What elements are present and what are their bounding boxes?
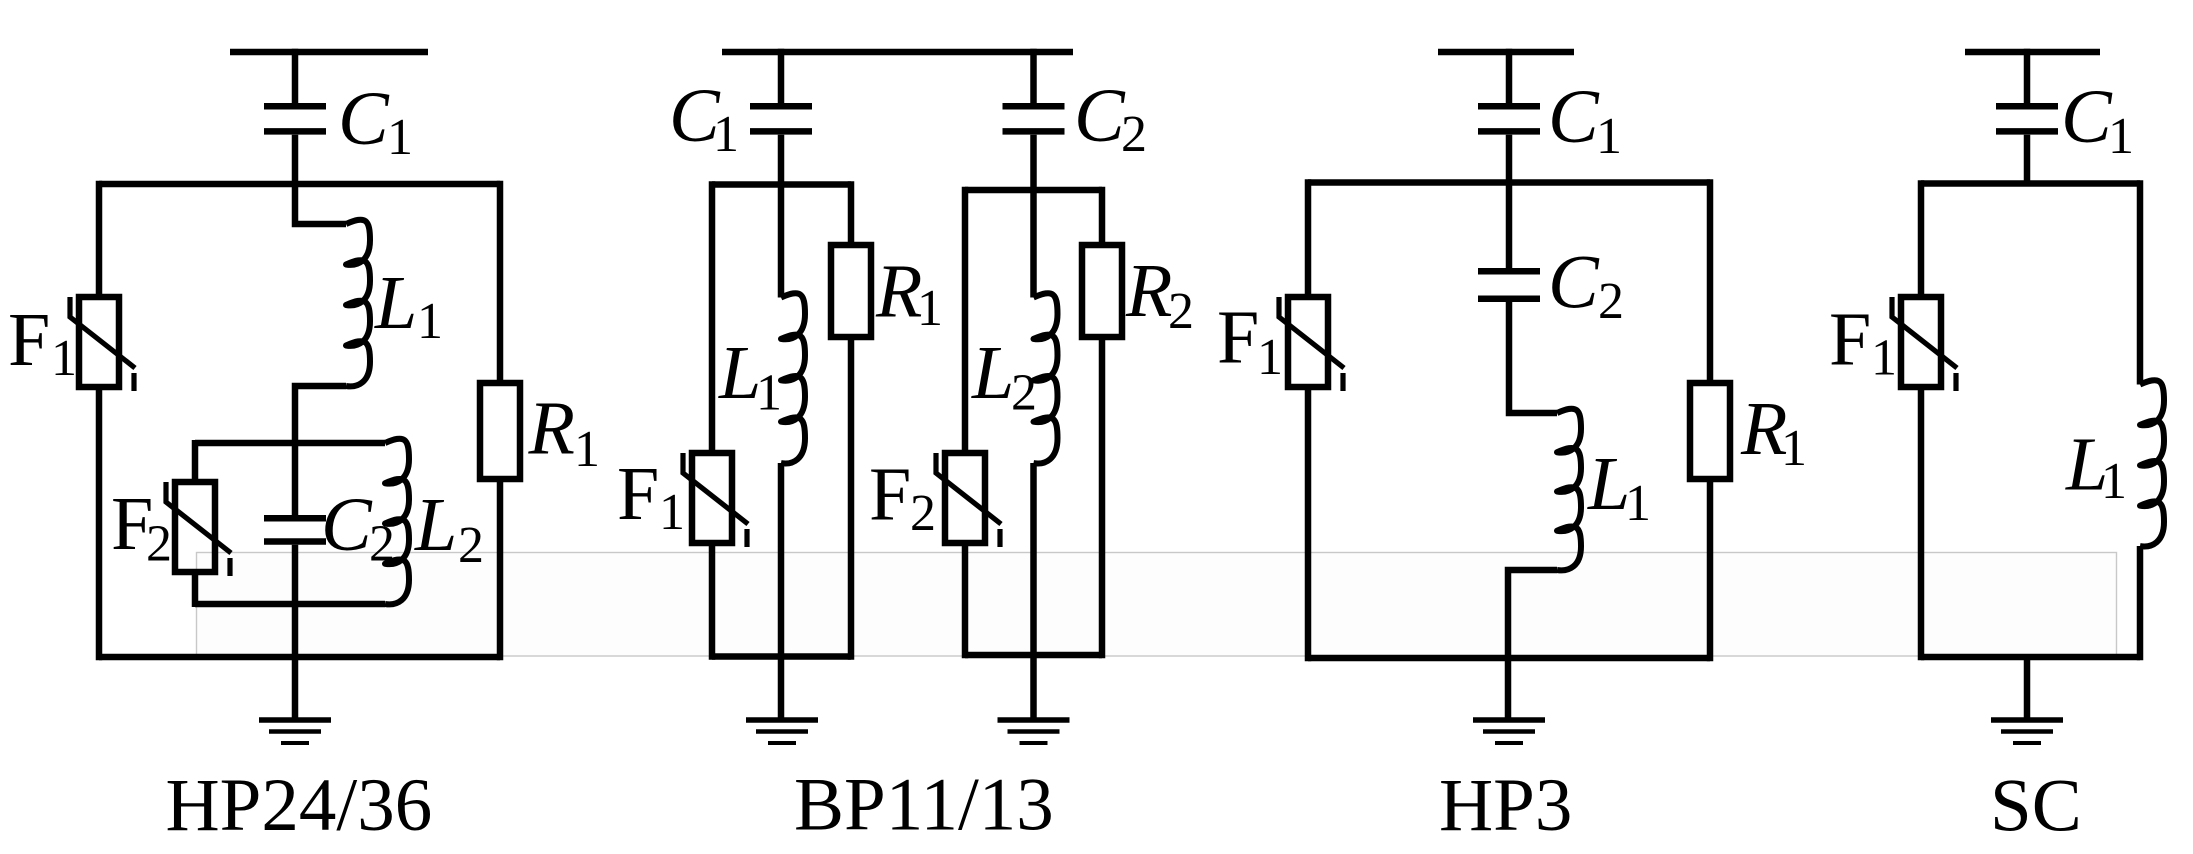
node: top bus bar (SC input) <box>1965 49 2100 56</box>
svg-text:L: L <box>971 331 1014 415</box>
wire: right box right edge, R2 to box bottom <box>1099 337 1106 658</box>
svg-text:1: 1 <box>51 330 77 387</box>
ground (SC) <box>1991 720 2063 743</box>
value label L2 (HP24/36) <box>414 483 484 574</box>
svg-text:SC: SC <box>1990 765 2082 848</box>
wire: left edge, F1 to box bottom <box>709 543 716 660</box>
wire: F2 bottom lead <box>192 572 199 607</box>
inductor L1 (BP11/13) <box>781 293 805 463</box>
wire: center wire, box top to L2 <box>1030 190 1037 298</box>
wire: bus to C1 <box>292 49 299 103</box>
node: top bus bar (HP3 input) <box>1438 49 1574 56</box>
wire: right box right edge, top to R2 <box>1099 187 1106 245</box>
wire: C2 to L1 with jog right <box>1509 302 1557 413</box>
value label F2 (BP11/13) <box>869 453 936 543</box>
wire: right branch, R1 to box bottom <box>497 479 504 660</box>
value label L1 (HP24/36) <box>374 261 443 350</box>
svg-text:1: 1 <box>387 109 413 166</box>
svg-text:1: 1 <box>2108 108 2134 165</box>
value label L2 (BP11/13) <box>971 331 1037 422</box>
svg-text:1: 1 <box>1781 420 1807 477</box>
inductor L1 (HP3) <box>1557 409 1581 571</box>
wire: L2 down through box bottom to ground <box>1030 463 1037 720</box>
svg-text:C: C <box>1074 74 1126 158</box>
svg-text:2: 2 <box>1598 273 1624 330</box>
resistor R2 (BP11/13) <box>1082 245 1122 337</box>
varistor F2 (HP24/36) <box>166 482 231 576</box>
wire: left edge, box top to F1 <box>709 181 716 453</box>
wire: outer box top and bottom (HP24/36) <box>99 184 500 657</box>
svg-text:L: L <box>718 331 761 415</box>
wire: F2 top lead <box>192 440 199 482</box>
varistor F1 (HP3) <box>1279 297 1344 391</box>
wire: right edge, box top to R1 <box>848 181 855 245</box>
wire: center wire into C2 <box>292 443 299 515</box>
ground (HP24/36) <box>259 720 331 743</box>
wire: bus to C1 (left section) <box>778 49 785 103</box>
svg-text:HP3: HP3 <box>1439 764 1572 847</box>
resistor R1 (BP11/13) <box>831 245 871 337</box>
wire: outer box top and bottom (HP3) <box>1308 183 1710 659</box>
svg-text:1: 1 <box>713 106 739 163</box>
wire: outer box top and bottom (SC) <box>1921 184 2140 658</box>
svg-text:C: C <box>2061 75 2113 159</box>
wire: right branch, L1 to box bottom <box>2137 546 2144 660</box>
value label L1 (BP11/13) <box>718 331 782 422</box>
capacitor C2 (HP24/36) <box>264 518 326 541</box>
wire: L1 bottom jog left, down to ground node <box>1508 570 1557 720</box>
svg-text:2: 2 <box>1121 106 1147 163</box>
value label L1 (HP3) <box>1587 442 1651 532</box>
value label C1 (HP3) <box>1548 75 1622 165</box>
resistor R1 (HP24/36) <box>480 383 520 479</box>
value label C2 (BP11/13) <box>1074 74 1147 163</box>
svg-text:C: C <box>321 483 373 567</box>
wire: right edge, R1 to box bottom <box>848 337 855 660</box>
value label L1 (SC) <box>2065 423 2127 511</box>
svg-text:F: F <box>869 453 911 537</box>
wire: parallel sub-loop bottom line <box>195 601 385 608</box>
svg-text:2: 2 <box>1168 283 1194 340</box>
wire: bus to C1 <box>1506 49 1513 103</box>
varistor F1 (HP24/36) <box>70 297 135 391</box>
wire: right branch, box top to L1 <box>2137 180 2144 384</box>
faint table-row band (page background artifact) <box>197 553 2117 657</box>
inductor L2 (HP24/36) <box>385 439 409 605</box>
value label R1 (HP3) <box>1740 387 1807 477</box>
value label R1 (BP11/13) <box>875 250 943 338</box>
node: top bus bar (BP11/13 input) <box>722 49 1073 56</box>
value label C1 (HP24/36) <box>338 77 413 166</box>
value label R1 (HP24/36) <box>528 387 601 479</box>
wire: C1 to box top <box>292 135 299 184</box>
svg-text:1: 1 <box>1625 475 1651 532</box>
value label C1 (SC) <box>2061 75 2134 165</box>
inductor L2 (BP11/13) <box>1034 293 1058 463</box>
wire: left sub-box top and bottom lines <box>712 185 851 657</box>
wire: left branch, F1 to box bottom <box>1918 387 1925 660</box>
wire: parallel sub-loop top line <box>195 440 385 447</box>
capacitor C1 (HP3) <box>1478 106 1540 131</box>
wire: C2 to right sub-box top <box>1030 135 1037 190</box>
node: top bus bar (HP24/36 input) <box>230 49 428 56</box>
capacitor C2 (HP3) <box>1478 271 1540 299</box>
svg-text:R: R <box>1125 249 1172 333</box>
resistor R1 (HP3) <box>1690 383 1730 479</box>
svg-text:HP24/36: HP24/36 <box>166 764 433 847</box>
svg-text:BP11/13: BP11/13 <box>794 764 1054 847</box>
wire: C1 to box top <box>1506 135 1513 183</box>
svg-text:F: F <box>1217 296 1259 380</box>
value label F1 (HP24/36) <box>8 298 77 387</box>
svg-text:2: 2 <box>369 516 395 573</box>
svg-text:1: 1 <box>756 365 782 422</box>
wire: bus to C2 (right section) <box>1030 49 1037 103</box>
value label F1 (BP11/13) <box>617 452 685 541</box>
ground (BP11/13 right) <box>998 720 1070 743</box>
value label F1 (HP3) <box>1217 296 1283 387</box>
ground (BP11/13 left) <box>746 720 818 743</box>
value label F1 (SC) <box>1829 298 1897 387</box>
svg-text:C: C <box>338 77 390 161</box>
inductor L1 (SC) <box>2140 380 2164 546</box>
svg-text:1: 1 <box>1871 330 1897 387</box>
capacitor C2 (BP11/13) <box>1003 106 1065 131</box>
wire: C2 down to ground node <box>292 545 299 720</box>
wire: center branch, box top to L1 <box>295 184 346 224</box>
wire: right sub-box top and bottom lines <box>965 190 1102 655</box>
svg-text:1: 1 <box>2101 453 2127 510</box>
value label R2 (BP11/13) <box>1125 249 1194 340</box>
wire: left branch, F1 to box bottom <box>1305 387 1312 661</box>
svg-text:2: 2 <box>910 485 936 542</box>
svg-text:2: 2 <box>458 517 484 574</box>
wire: L1 bottom jog down to sub-loop <box>295 386 346 446</box>
varistor F2 (BP11/13) <box>936 453 1001 547</box>
value label C1 (BP11/13) <box>669 74 739 163</box>
inductor L1 (HP24/36) <box>346 220 370 387</box>
wire: left branch, F1 to box bottom <box>96 387 103 660</box>
varistor F1 (BP11/13) <box>683 453 748 547</box>
svg-text:F: F <box>617 452 659 536</box>
varistor F1 (SC) <box>1892 297 1957 391</box>
wire: C1 to box top <box>2024 135 2031 184</box>
wire: right branch, R1 to box bottom <box>1707 479 1714 661</box>
wire: C1 to left sub-box top <box>778 135 785 185</box>
ground (HP3) <box>1473 720 1545 743</box>
svg-text:L: L <box>374 261 417 345</box>
svg-text:R: R <box>528 387 575 471</box>
svg-text:C: C <box>1548 75 1600 159</box>
wire: right box left edge, top to F2 <box>962 187 969 453</box>
svg-text:2: 2 <box>146 516 172 573</box>
svg-text:1: 1 <box>659 484 685 541</box>
wire: left branch, box top to F1 <box>96 181 103 297</box>
svg-text:1: 1 <box>574 421 600 478</box>
capacitor C1 (BP11/13) <box>750 106 812 131</box>
wire: left branch, box top to F1 <box>1918 180 1925 297</box>
wire: left branch, box top to F1 <box>1305 179 1312 297</box>
wire: right branch, box top to R1 <box>497 181 504 383</box>
value label F2 (HP24/36) <box>111 482 172 573</box>
svg-text:C: C <box>1548 241 1600 325</box>
wire: right box left edge, F2 to box bottom <box>962 543 969 658</box>
wire: center wire, box top to C2 <box>1506 183 1513 269</box>
svg-text:R: R <box>875 250 922 334</box>
svg-text:L: L <box>414 483 457 567</box>
wire: bus to C1 <box>2024 49 2031 103</box>
svg-text:1: 1 <box>1596 108 1622 165</box>
svg-text:2: 2 <box>1011 365 1037 422</box>
wire: box bottom to ground <box>2024 657 2031 720</box>
svg-text:1: 1 <box>417 293 443 350</box>
wire: L1 down through box bottom to ground <box>778 463 785 720</box>
capacitor C1 (SC) <box>1996 106 2058 131</box>
value label C2 (HP24/36) <box>321 483 395 573</box>
wire: right branch, box top to R1 <box>1707 179 1714 383</box>
svg-text:F: F <box>1829 298 1871 382</box>
capacitor C1 (HP24/36) <box>264 106 326 131</box>
svg-text:F: F <box>8 298 50 382</box>
svg-text:L: L <box>1587 442 1630 526</box>
value label C2 (HP3) <box>1548 241 1624 331</box>
wire: center wire, box top to L1 <box>778 185 785 298</box>
svg-text:1: 1 <box>1257 329 1283 386</box>
svg-text:1: 1 <box>917 280 943 337</box>
